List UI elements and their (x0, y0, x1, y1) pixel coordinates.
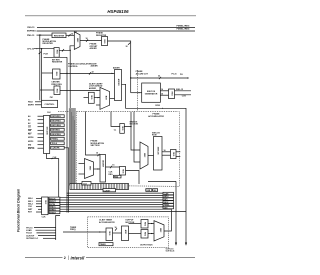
svg-text:OUTPUT MUX: OUTPUT MUX (140, 244, 153, 246)
wire M2 out to adder T1 (110, 97, 115, 99)
register R2 center frequency register (54, 48, 59, 58)
wire R1 to mux M1 (66, 34, 74, 36)
svg-text:16: 16 (71, 33, 73, 35)
svg-text:REG: REG (103, 39, 105, 44)
wire D1 bottom out (47, 154, 59, 213)
svg-text:RST: RST (28, 212, 33, 214)
wire R6 out upper to rail (176, 151, 180, 153)
wire ROM out lower (162, 154, 171, 156)
svg-text:REGISTER: REGISTER (43, 43, 54, 45)
wire R6 stub (176, 156, 180, 158)
wire T1 out down (122, 84, 187, 244)
wire into sincos generator (131, 92, 142, 94)
svg-text:CM0-15: CM0-15 (27, 27, 35, 29)
svg-text:2: 2 (64, 256, 66, 260)
wire M3 lower input (134, 112, 140, 163)
bus slash B1 out (89, 72, 91, 74)
svg-text:ADDER: ADDER (91, 65, 99, 68)
wire M4 out (94, 168, 101, 170)
svg-text:A2: A2 (28, 122, 30, 125)
arrow output rail A (175, 243, 177, 246)
svg-text:REG: REG (121, 169, 123, 174)
grey bus band vertical (69, 108, 76, 186)
wire control rail 2 (64, 148, 68, 213)
node junction B1 out rail (66, 73, 67, 74)
svg-text:LOAD: LOAD (26, 229, 32, 232)
arrow CF input (37, 48, 39, 49)
svg-text:A1: A1 (28, 118, 30, 121)
svg-text:ADDER: ADDER (113, 66, 120, 69)
footer rule right (86, 257, 195, 259)
svg-text:REG: REG (56, 50, 58, 55)
dashed right edge sincos section (179, 112, 181, 187)
bus slash R1 out (69, 34, 71, 36)
bus slash R3 out (128, 43, 130, 45)
svg-text:CF0-15: CF0-15 (27, 48, 35, 50)
svg-text:16: 16 (161, 89, 163, 91)
bus slash K1 out (115, 228, 117, 230)
wire control rail 1 (66, 57, 68, 212)
svg-text:ACCUMULATOR: ACCUMULATOR (99, 221, 115, 224)
svg-text:ENMUX: ENMUX (49, 212, 56, 214)
wire feedback rail from R2 out (69, 50, 71, 183)
adder K2 (122, 226, 129, 241)
wire R2 to mux M1 (59, 46, 74, 51)
arrow into adder (112, 73, 114, 74)
node bus B to mux (75, 31, 77, 33)
wire B1 input (42, 72, 53, 74)
svg-text:FREQ: FREQ (70, 229, 76, 231)
lower left pin wires (34, 228, 56, 239)
svg-text:WR: WR (28, 130, 32, 132)
dashed box timer accumulator (88, 217, 169, 248)
wire bigbox to R4 upper (160, 90, 168, 92)
node PM junction (39, 34, 40, 35)
svg-text:DECODE: DECODE (46, 127, 48, 136)
block B3 input control (42, 100, 58, 107)
grey band wire lines (70, 109, 75, 185)
register bank hatch box (70, 184, 129, 190)
svg-text:WRT: WRT (28, 209, 33, 211)
register R4 output register (169, 89, 175, 99)
svg-text:ENPH: ENPH (28, 105, 34, 107)
mux K5 (154, 221, 164, 241)
D2 input pin labels (28, 198, 33, 214)
bus line 7 (59, 206, 163, 208)
svg-text:REG: REG (143, 222, 145, 227)
overline marks on pin labels (28, 126, 34, 148)
svg-text:DEC: DEC (44, 200, 46, 205)
wire R3 output to right rail (108, 41, 131, 93)
register R3 (102, 37, 108, 46)
svg-text:ENPHREG: ENPHREG (52, 116, 62, 118)
svg-text:32: 32 (92, 72, 94, 74)
svg-text:CLK: CLK (83, 183, 88, 185)
label box under register row (103, 189, 116, 192)
svg-text:OEI: OEI (153, 190, 157, 192)
footer rule left (25, 257, 63, 259)
svg-text:ENI: ENI (28, 144, 32, 146)
wire M4 input lower (79, 173, 85, 175)
svg-text:MUX: MUX (88, 166, 90, 171)
bus slash phase bus (159, 77, 161, 79)
svg-text:ENOFREG: ENOFREG (52, 134, 62, 136)
arrow into sincos (139, 92, 141, 93)
bus slash T2 out (110, 166, 112, 168)
svg-text:16: 16 (161, 93, 163, 95)
svg-text:PCM: PCM (44, 53, 49, 55)
svg-text:CONTROL: CONTROL (68, 66, 79, 68)
svg-text:CLROVF: CLROVF (26, 235, 35, 237)
svg-text:OUTMUX 0-1: OUTMUX 0-1 (26, 238, 39, 240)
svg-text:PMSEL: PMSEL (52, 139, 59, 141)
D1 input pins (28, 115, 35, 150)
register K1 (106, 228, 113, 241)
svg-text:TICLK: TICLK (26, 233, 32, 235)
svg-text:CL: CL (114, 129, 117, 131)
svg-text:SIN0-15: SIN0-15 (176, 89, 183, 91)
dashed right phase accumulator box (137, 70, 139, 112)
svg-text:HSP45106: HSP45106 (107, 9, 129, 14)
svg-text:REGISTER: REGISTER (52, 62, 63, 64)
svg-text:SIN/COS: SIN/COS (157, 147, 159, 156)
svg-text:ENPOREG: ENPOREG (52, 125, 62, 127)
wire corner lower left (56, 216, 60, 241)
arrow K4b out (151, 233, 153, 234)
svg-text:ENTI: ENTI (164, 199, 168, 201)
svg-text:SEL1: SEL1 (28, 201, 33, 203)
wire bus B (37, 30, 196, 32)
wire R5 out (124, 127, 140, 151)
svg-text:PMSEL#REG: PMSEL#REG (177, 28, 190, 30)
bus line 2 (67, 194, 164, 196)
bus line 3 (60, 197, 163, 199)
svg-text:TIMER: TIMER (100, 244, 107, 246)
svg-text:FREQ REG: FREQ REG (51, 84, 62, 86)
register B2 (54, 86, 60, 95)
wire T2 out (106, 166, 120, 168)
svg-text:ENPH: ENPH (164, 196, 169, 198)
svg-text:32: 32 (126, 46, 128, 48)
svg-text:GENERATOR: GENERATOR (145, 92, 158, 95)
D1 output label texts (52, 116, 62, 150)
D2 input wires (36, 198, 42, 212)
arrow on accumulator output wire (162, 108, 164, 109)
svg-text:REG: REG (90, 95, 92, 100)
svg-text:CLK: CLK (47, 112, 51, 114)
wire CF input (34, 48, 54, 50)
bus slash section in (98, 154, 100, 156)
wire S1 input stub (84, 97, 89, 99)
svg-text:ADDER: ADDER (90, 47, 98, 50)
mux M3 (140, 142, 148, 169)
bus slash on vertical (39, 52, 41, 54)
svg-text:PM0-15: PM0-15 (27, 35, 35, 37)
svg-text:REG: REG (170, 92, 172, 97)
wire M4 input upper (79, 163, 85, 165)
wire ROM out upper (162, 151, 171, 153)
wire K4b to mux K5 (148, 233, 154, 235)
svg-text:REG: REG (143, 232, 145, 237)
node junction phase bus (130, 77, 131, 78)
svg-text:CLK: CLK (42, 217, 47, 219)
svg-text:ENREG: ENREG (49, 210, 56, 212)
svg-text:16: 16 (96, 152, 98, 154)
decoder D2 (42, 197, 48, 215)
wire K2 to K4a (129, 223, 142, 225)
svg-text:16: 16 (115, 227, 117, 229)
svg-text:CLKINT: CLKINT (104, 190, 111, 192)
svg-text:TICLK: TICLK (52, 143, 58, 145)
wire B2 out to mux M2 (60, 89, 100, 91)
svg-text:P0-31: P0-31 (172, 74, 177, 76)
bus slash M1 out (86, 39, 88, 41)
svg-text:SEL0: SEL0 (28, 198, 33, 200)
svg-text:RD: RD (28, 134, 31, 136)
svg-text:MUX: MUX (143, 153, 145, 158)
arrow output rail B (185, 243, 187, 246)
svg-text:A0: A0 (28, 115, 30, 118)
svg-text:SECTION: SECTION (91, 145, 100, 147)
label box under K1 (99, 243, 113, 246)
decoder D1 (44, 116, 50, 154)
lower left pin labels (26, 227, 39, 240)
svg-text:ENCFREG: ENCFREG (52, 121, 62, 123)
block T2 sin cos rom address (100, 155, 106, 183)
bus line 5 (60, 201, 163, 203)
wire B2 input (40, 89, 54, 91)
svg-text:REG: REG (121, 126, 123, 131)
register B1 buffer register (53, 69, 60, 79)
svg-text:TF0-15: TF0-15 (26, 227, 33, 229)
svg-text:RND: RND (114, 177, 119, 179)
wire SIN output (175, 90, 192, 92)
svg-text:ACCUMULATOR: ACCUMULATOR (148, 115, 164, 118)
svg-text:16: 16 (86, 38, 88, 40)
svg-text:CS2: CS2 (28, 206, 32, 208)
svg-text:CS: CS (28, 126, 31, 128)
svg-text:ADDER: ADDER (117, 79, 120, 86)
bus line 9 (59, 211, 186, 213)
block ROM (154, 137, 163, 171)
svg-text:CLKR: CLKR (164, 193, 169, 195)
arrow S1 out (98, 97, 100, 98)
svg-text:CLROFR: CLROFR (52, 148, 61, 150)
wire vertical from CF row down (41, 49, 43, 101)
arrow D1 bottom (52, 158, 54, 159)
D1 input wires (38, 116, 44, 148)
svg-text:ADDER: ADDER (102, 160, 105, 167)
arrow TF input (99, 231, 101, 232)
svg-text:CLK: CLK (53, 157, 58, 159)
wire COS output (175, 94, 192, 96)
register R7 (120, 167, 126, 176)
right bus label texts (164, 193, 170, 209)
label boxes at section bottom (146, 189, 152, 192)
bus line 1 (67, 192, 164, 194)
svg-text:REG: REG (108, 231, 110, 236)
svg-text:ENTIM: ENTIM (49, 204, 55, 206)
svg-text:COS: COS (182, 96, 187, 98)
svg-text:PMSEL#REG: PMSEL#REG (177, 26, 190, 28)
wire PACI (35, 101, 42, 103)
svg-text:ENPREG: ENPREG (27, 31, 36, 33)
arrow M4 out (97, 168, 99, 169)
svg-text:ENCLK: ENCLK (28, 148, 35, 150)
wire K5 out up (164, 209, 171, 231)
node junction R2 out (70, 50, 71, 51)
svg-text:Functional Block Diagram: Functional Block Diagram (17, 189, 21, 232)
svg-text:MUX: MUX (76, 38, 78, 43)
register K4a (141, 220, 148, 229)
svg-text:PM: PM (50, 97, 53, 99)
wire bigbox to R4 lower (160, 94, 168, 96)
wire vertical into section (86, 112, 101, 156)
wire K2 to K4b (129, 233, 142, 235)
register R5 (120, 124, 125, 134)
svg-text:ADDER: ADDER (89, 87, 97, 90)
bus line 4 (60, 199, 163, 201)
mux M1 (74, 32, 80, 50)
wire PM input (37, 34, 53, 36)
svg-text:PMSEL: PMSEL (164, 205, 170, 207)
register K4b (141, 230, 148, 239)
svg-text:CONTROL: CONTROL (45, 104, 56, 106)
svg-text:ENOF: ENOF (164, 202, 169, 204)
wire phase out bus (131, 77, 189, 79)
arrow B2 out (97, 90, 99, 91)
right bus label boxes (163, 192, 174, 209)
svg-text:PACI: PACI (28, 101, 33, 104)
svg-text:MUX: MUX (159, 228, 161, 233)
svg-text:OUT16-31: OUT16-31 (166, 251, 175, 253)
node CF junction (41, 48, 42, 49)
svg-text:ADD: ADD (124, 230, 127, 235)
svg-text:ROM: ROM (155, 105, 160, 107)
svg-text:16: 16 (112, 165, 114, 167)
dashed left edge sincos section (76, 112, 78, 185)
wire ENPHAC (35, 104, 42, 106)
svg-text:REG: REG (172, 152, 174, 157)
header rule (25, 15, 196, 17)
D1 output label boxes (51, 115, 64, 149)
wire TF input (63, 231, 106, 233)
bus line 6 (60, 204, 163, 206)
svg-text:ENOUT: ENOUT (49, 201, 56, 203)
svg-text:MUX: MUX (105, 96, 107, 101)
register R6 (171, 150, 177, 159)
wire R5 input (111, 112, 120, 127)
svg-text:MOD0: MOD0 (28, 137, 33, 139)
wire M3 bottom link (148, 180, 176, 182)
wire M2 lower input (96, 104, 100, 106)
svg-text:PH: PH (180, 74, 183, 76)
D2 output label texts (49, 198, 56, 214)
wire mux M1 output (80, 40, 102, 42)
wire K4a to mux K5 (148, 223, 154, 225)
wire bus A (37, 26, 195, 28)
svg-text:intersil: intersil (71, 256, 86, 261)
register S1 (88, 92, 94, 103)
svg-text:REG: REG (55, 72, 57, 77)
wire S1 out to mux M2 (94, 97, 100, 99)
svg-text:REGISTER: REGISTER (54, 35, 65, 37)
arrow phase bus end (187, 77, 189, 78)
svg-text:MOD1: MOD1 (28, 141, 33, 143)
small box on register row (82, 182, 91, 186)
arrow K4a out (151, 223, 153, 224)
svg-text:REG: REG (109, 174, 114, 176)
wire B1 out to adder (60, 72, 115, 74)
svg-text:ENTIREG: ENTIREG (52, 130, 61, 132)
svg-text:32: 32 (158, 75, 160, 77)
bus slash R2 out (62, 49, 64, 51)
big box sin cos generator (142, 83, 161, 102)
wire CF stub to register bottom (44, 56, 67, 58)
mux M4 (85, 159, 94, 179)
svg-text:SEL2: SEL2 (28, 204, 33, 206)
label box round (114, 175, 122, 178)
register R1 phase modulation register (52, 33, 66, 38)
bus line 8 (59, 208, 172, 210)
adder T1 (115, 70, 122, 101)
wire M3 out (148, 155, 154, 157)
svg-text:OER: OER (146, 190, 151, 192)
wire vertical from PM row down (39, 35, 41, 100)
wire R7 out (126, 171, 140, 185)
svg-text:ENCLK: ENCLK (49, 198, 56, 200)
wire output rail A (175, 181, 177, 244)
arrow PM input (40, 35, 42, 36)
svg-text:ENACC: ENACC (49, 206, 56, 209)
svg-text:16: 16 (164, 150, 166, 152)
mux M2 (100, 87, 110, 109)
dashed bottom edge sincos section (77, 185, 180, 188)
dashed bottom phase accumulator box (58, 111, 178, 113)
D2 output label boxes (49, 197, 60, 214)
svg-text:REG: REG (56, 89, 58, 94)
wire K1 to K2 (113, 232, 122, 234)
